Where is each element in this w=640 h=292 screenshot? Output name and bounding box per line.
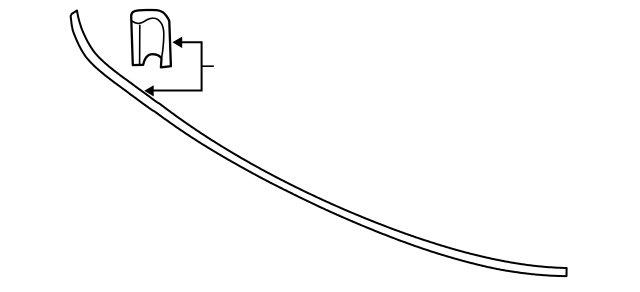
bracket polyline — [153, 42, 202, 90]
arrow 1 — [172, 37, 182, 49]
clip outer silhouette — [131, 10, 171, 67]
arrow 2 — [144, 85, 153, 96]
molding strip — [71, 11, 567, 277]
clip inner top curve — [132, 18, 164, 58]
clip left inner vertical — [139, 25, 141, 65]
tick — [202, 65, 214, 67]
